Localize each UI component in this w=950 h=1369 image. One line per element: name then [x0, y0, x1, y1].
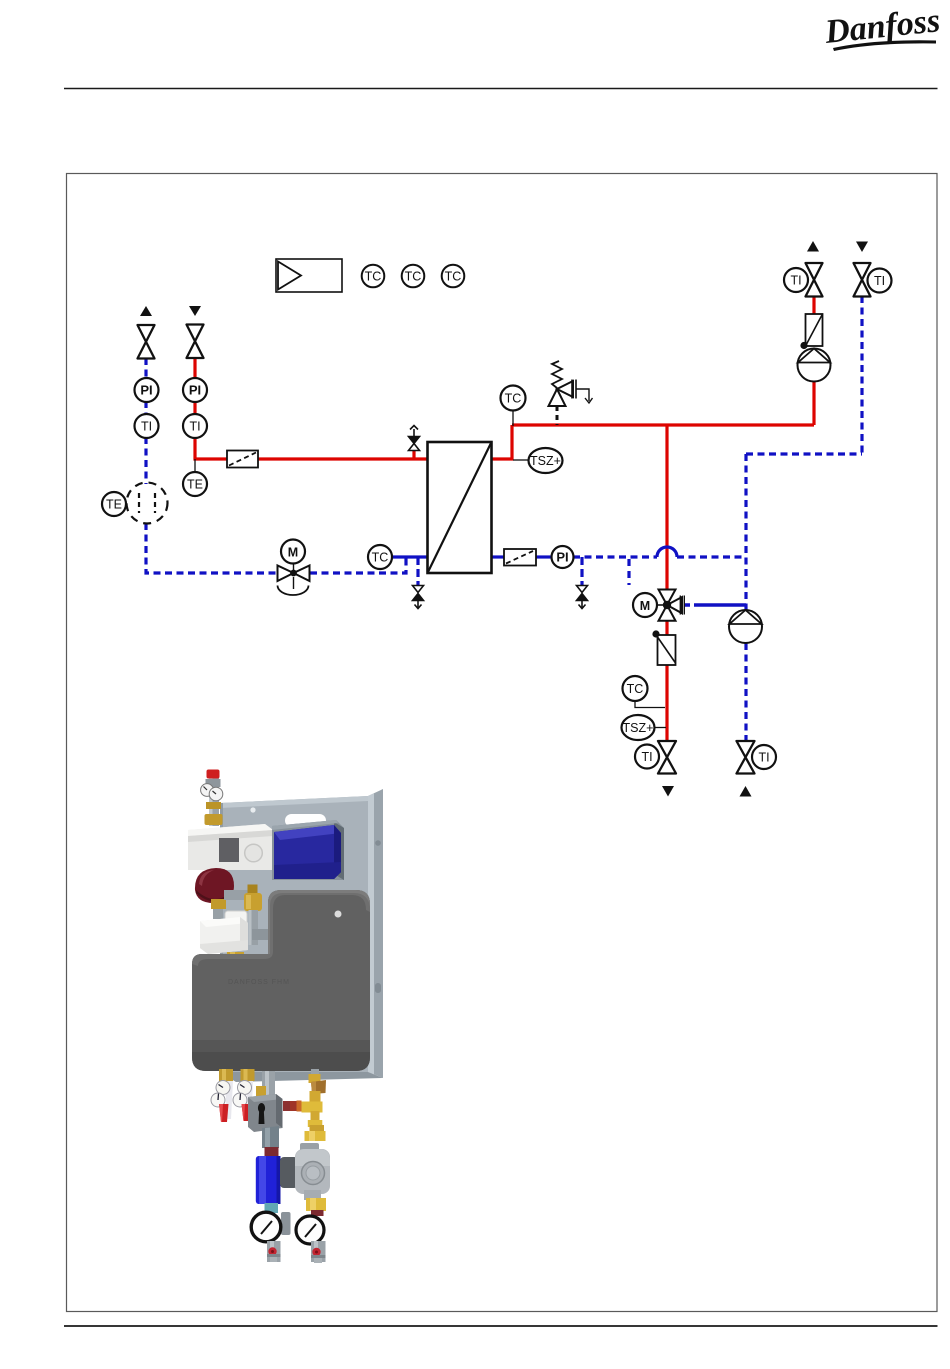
valve V1 return shutoff left [138, 325, 155, 359]
bottom rule [64, 1325, 938, 1327]
sensor TE red [183, 472, 207, 496]
top pipe with valve and gauges [201, 770, 223, 827]
svg-text:PI: PI [556, 550, 568, 565]
svg-text:TI: TI [141, 420, 152, 434]
wire: red three-way valve to actuator box [665, 620, 668, 635]
svg-text:TI: TI [641, 750, 652, 764]
wire: blue drain stub near PI [580, 557, 583, 586]
svg-text:PI: PI [189, 383, 201, 398]
valve V3 heating supply shutoff [806, 263, 823, 297]
regulator box right column with pivot dot [800, 314, 822, 349]
safety valve with spring [549, 361, 593, 425]
gray enclosure behind blue box [272, 820, 344, 880]
EPP insulation cover [192, 890, 370, 1071]
arrow: flow up right top [807, 241, 819, 252]
pressure gauge left [251, 1212, 281, 1242]
valve V2 supply shutoff left [187, 325, 204, 359]
air vent symbol above HX inlet [409, 426, 420, 451]
pressure gauge right [296, 1216, 324, 1244]
heat exchanger HX [428, 442, 492, 573]
sensor TC at HX return [368, 545, 392, 569]
svg-text:TC: TC [445, 270, 462, 284]
wire: blue HX outlet to filter [491, 555, 504, 558]
svg-text:TC: TC [405, 270, 422, 284]
wire: blue return valve to PI dashed [144, 358, 147, 379]
sensor TI bottom red [635, 745, 659, 769]
svg-text:TE: TE [106, 498, 122, 512]
filter strainer red line [227, 451, 258, 468]
svg-text:TC: TC [372, 551, 389, 565]
svg-text:TE: TE [187, 478, 203, 492]
sensor TC bottom with elbow tap [623, 676, 666, 708]
wire: red filter to heat exchanger [258, 457, 428, 460]
wire: blue flow meter down and right to M valve [146, 523, 278, 573]
valve V6 bottom blue shutoff [737, 741, 755, 774]
sensor TC legend 1 [362, 265, 385, 288]
brass fitting below vessel [211, 899, 226, 919]
circulation pump [280, 1143, 330, 1216]
wire: blue filter to PI [536, 555, 552, 558]
three-way motor valve [633, 590, 684, 621]
svg-text:TC: TC [365, 270, 382, 284]
wire: blue bridge hop over red [657, 547, 677, 557]
wire: blue TI to flow meter dashed [144, 437, 147, 484]
vertical pipe below tee [249, 910, 259, 945]
sensor TSZ+ bottom [622, 715, 667, 740]
wire: blue TC to heat exchanger solid [392, 555, 428, 558]
top rule [64, 88, 938, 90]
svg-text:TSZ+: TSZ+ [530, 454, 561, 468]
wire: blue drain stub below HX [416, 557, 419, 586]
danfoss logo [822, 2, 941, 51]
svg-text:PI: PI [140, 383, 152, 398]
sensor TI at return shutoff [868, 269, 892, 293]
sensor TC top with tap line [501, 386, 526, 427]
arrow: flow up left [140, 306, 152, 316]
arrow: flow up bottom blue [740, 786, 752, 797]
arrow: flow down bottom red [662, 786, 674, 797]
water meter white box [200, 911, 248, 965]
horizontal pipe to tee [224, 890, 248, 900]
arrow: flow down left [189, 306, 201, 316]
brass tee fitting [244, 885, 262, 912]
svg-text:TC: TC [505, 392, 522, 406]
handle slot [285, 814, 326, 827]
svg-text:M: M [288, 546, 298, 560]
svg-text:TC: TC [627, 682, 644, 696]
wire: blue M valve to riser stub [310, 557, 406, 573]
sensor TC legend 3 [442, 265, 465, 288]
wire: red supply valve to PI left branch [193, 358, 196, 379]
pump supply (red riser) [798, 349, 831, 382]
filter strainer blue line [504, 549, 536, 566]
pipe below gauge right [311, 1241, 326, 1263]
wire: blue upper elbow horizontal dashed [746, 452, 862, 455]
sensor TI blue left [135, 414, 159, 438]
pump return (blue riser) [729, 610, 762, 643]
bottom thermo valve 1 [211, 1069, 233, 1122]
center control valve block [248, 1071, 291, 1235]
svg-text:TI: TI [790, 274, 801, 288]
expansion vessel maroon [195, 868, 234, 903]
legend box with triangle [276, 259, 342, 292]
sensor TC legend 2 [402, 265, 425, 288]
horizontal pipe into cover [252, 929, 273, 940]
actuator box on red drop with pivot dot [652, 630, 675, 665]
sensor TSZ+ at HX supply outlet [513, 448, 563, 473]
wire: blue stub dashed mid [627, 559, 630, 585]
wire: red top horizontal main [512, 423, 814, 426]
frame box [67, 174, 938, 1312]
flow meter dashed circle [127, 483, 168, 524]
sensor PI blue mid [552, 546, 574, 568]
mounting back plate [220, 789, 383, 1082]
drain valve below HX [413, 586, 424, 609]
bottom thermo valve 2 [233, 1069, 255, 1121]
valve V5 bottom red shutoff [658, 741, 676, 774]
M valve two-way on return [278, 540, 310, 596]
svg-text:M: M [640, 599, 650, 613]
node: TE tap on red corner [194, 459, 196, 472]
controller unit [188, 824, 273, 870]
sensor PI blue left [135, 378, 159, 402]
sensor TE meter [102, 492, 126, 516]
svg-text:TSZ+: TSZ+ [623, 721, 654, 735]
sensor PI red left [183, 378, 207, 402]
wire: blue PI to TI dashed [144, 401, 147, 415]
sensor TI at supply shutoff [784, 268, 808, 292]
wire: blue three-way valve to pump riser [684, 603, 746, 607]
sensor TI red left [183, 414, 207, 438]
svg-text:TI: TI [758, 751, 769, 765]
wire: blue right riser vertical dashed [744, 454, 747, 611]
arrow: flow down right top [856, 242, 868, 253]
wire: red HX outlet to riser corner [491, 425, 512, 459]
drain valve near PI [577, 586, 588, 609]
svg-text:TI: TI [874, 274, 885, 288]
wire: red actuator box down to bottom valve [665, 665, 668, 741]
right column brass valve top [283, 1069, 326, 1141]
wire: red drop to three-way valve [665, 425, 668, 590]
valve V4 heating return shutoff [854, 263, 871, 297]
svg-text:DANFOSS FHM: DANFOSS FHM [228, 979, 290, 986]
wire: blue pump to bottom valve dashed [744, 643, 747, 741]
wire: red pump riser [812, 381, 815, 425]
wire: red TI down and right to filter [195, 437, 228, 459]
pipe below gauge left [267, 1241, 281, 1262]
wire: blue up to return shutoff valve dashed [860, 296, 863, 454]
wire: red air vent stub [412, 448, 415, 459]
wire: blue PI to bridge dashed [573, 555, 657, 558]
wire: red PI to TI [193, 401, 196, 415]
sensor TI bottom blue [752, 745, 776, 769]
wire: red valve to regulator box right column [812, 296, 815, 314]
svg-text:TI: TI [189, 420, 200, 434]
wire: blue bridge to right riser dashed [677, 555, 746, 558]
blue junction box [274, 825, 341, 879]
